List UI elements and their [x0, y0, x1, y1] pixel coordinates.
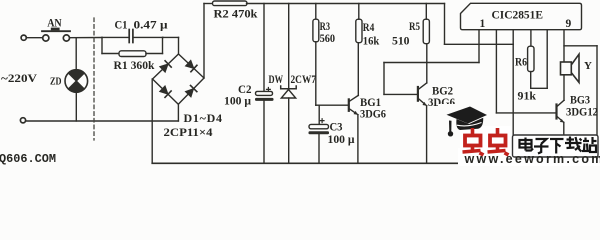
resistor R6	[528, 46, 548, 88]
top rail	[204, 3, 213, 5]
diode D4 bottom-right edge	[185, 85, 197, 97]
wire node A down to lamp	[75, 38, 77, 70]
watermark char xia	[550, 139, 564, 154]
svg-text:0.47 μ: 0.47 μ	[134, 17, 168, 31]
terminal top-left input	[21, 35, 26, 40]
wire BG2 base path	[384, 63, 479, 95]
wire BG3 emitter down	[563, 122, 565, 140]
top rail continued	[247, 3, 445, 5]
switch AN contact right	[63, 35, 69, 41]
svg-text:1: 1	[480, 18, 486, 30]
svg-text:R5: R5	[409, 19, 420, 33]
resistor R3	[313, 4, 319, 106]
svg-text:R4: R4	[363, 20, 375, 34]
svg-text:2CW7: 2CW7	[291, 72, 317, 86]
svg-text:DW: DW	[269, 72, 284, 86]
watermark char zai	[565, 137, 582, 152]
svg-text:R1 360k: R1 360k	[114, 58, 155, 72]
pin 5 wire	[546, 30, 548, 89]
dashed separator line	[93, 18, 95, 140]
watermark text box	[513, 135, 599, 157]
watermark bug glyph 1	[463, 128, 484, 155]
diode D2 top-right edge	[185, 60, 197, 72]
wire BG1 emitter to rail	[357, 115, 359, 164]
watermark white backing	[458, 148, 600, 166]
svg-text:~220V: ~220V	[1, 71, 37, 85]
pin 3 wire	[512, 30, 514, 164]
svg-text:Q606.COM: Q606.COM	[0, 152, 56, 166]
capacitor C3	[309, 105, 330, 163]
svg-text:560: 560	[320, 31, 336, 45]
wire BG3 base from pin 2	[496, 112, 555, 114]
wire switch to node A	[70, 37, 102, 39]
watermark char zi	[534, 139, 549, 154]
wire bridge bottom corner to AC line	[177, 104, 179, 121]
resistor R5	[423, 4, 429, 44]
svg-text:510: 510	[392, 33, 410, 47]
svg-text:AN: AN	[47, 15, 62, 29]
svg-text:3DG6: 3DG6	[360, 106, 386, 120]
pin 2 wire	[495, 30, 497, 113]
svg-text:2CP11×4: 2CP11×4	[164, 125, 213, 139]
wire bridge left corner to bottom rail	[151, 79, 153, 163]
capacitor C1	[102, 30, 163, 43]
bridge rectifier D1-D4 diamond	[153, 54, 205, 104]
pin 1 wire	[478, 30, 480, 63]
switch AN contact left	[43, 35, 49, 41]
svg-text:100 μ: 100 μ	[328, 132, 355, 146]
pin 6 wire	[563, 30, 565, 62]
svg-text:91k: 91k	[518, 89, 537, 103]
pin 4 wire	[530, 30, 532, 47]
IC U1 CIC2851E body	[461, 3, 582, 29]
transistor BG2	[418, 83, 427, 106]
svg-text:R6: R6	[515, 54, 527, 68]
svg-text:CIC2851E: CIC2851E	[492, 10, 544, 22]
wire right bypass loop	[564, 46, 597, 136]
wire bridge right corner to top rail	[203, 4, 205, 79]
svg-text:100 μ: 100 μ	[224, 94, 251, 108]
resistor R2	[213, 1, 248, 6]
wire lamp to bottom line	[75, 92, 77, 121]
svg-text:www.eeworm.com: www.eeworm.com	[464, 152, 600, 166]
wire top rail drop to IC pins	[445, 4, 514, 45]
wire BG2 collector to R5	[426, 44, 428, 83]
zener diode DW	[281, 4, 297, 164]
svg-text:C1: C1	[115, 17, 128, 31]
watermark char zhan	[582, 137, 597, 152]
diode D3 bottom-left edge	[159, 86, 171, 98]
watermark char dian	[520, 138, 534, 151]
speaker Y	[561, 54, 580, 82]
svg-text:ZD: ZD	[50, 75, 62, 87]
wire network to bridge top	[163, 36, 179, 38]
wire bottom AC line to bridge bottom corner	[26, 120, 178, 122]
svg-text:Y: Y	[584, 60, 592, 72]
capacitor C2	[255, 4, 274, 164]
wire speaker to BG3 collector	[563, 75, 565, 101]
wire BG1 collector to R4	[357, 43, 359, 96]
watermark bug glyph 2	[488, 128, 509, 155]
resistor R4	[356, 4, 362, 43]
resistor R1	[102, 37, 163, 56]
terminal bottom-left input	[20, 118, 25, 123]
switch AN bar	[42, 30, 70, 32]
wire BG2 emitter to rail	[426, 106, 428, 164]
svg-text:D1~D4: D1~D4	[184, 111, 223, 125]
switch AN actuator	[51, 28, 60, 31]
svg-text:9: 9	[566, 18, 572, 30]
svg-text:16k: 16k	[363, 33, 380, 47]
transistor BG1	[349, 95, 359, 114]
wire terminal to switch	[27, 37, 42, 39]
wire R3 to BG1 base	[316, 104, 349, 106]
diode D1 top-left edge	[159, 61, 171, 73]
bottom rail	[152, 162, 560, 164]
svg-text:R2 470k: R2 470k	[214, 6, 258, 20]
lamp ZD	[65, 70, 88, 93]
watermark graduation cap	[447, 107, 488, 137]
transistor BG3	[557, 100, 565, 122]
svg-text:3DG12: 3DG12	[566, 104, 598, 118]
